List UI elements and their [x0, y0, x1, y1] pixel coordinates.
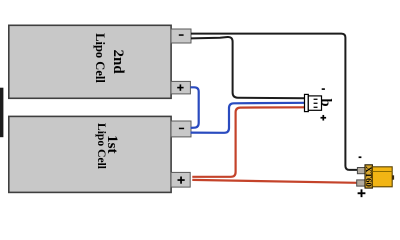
battery B2 (2nd Lipo Cell): [9, 25, 171, 98]
wire cropped at left edge: [0, 88, 3, 138]
XT60 body: [372, 167, 392, 187]
XT60 pos tab: [357, 180, 366, 186]
wire red 1: B1 pos to balance pos pin: [192, 107, 305, 177]
XT60 neg tab: [357, 168, 365, 174]
XT60 connector: [357, 165, 394, 188]
wire red 2: B1 pos to XT60 pos: [192, 180, 356, 183]
balance connector JST-XH: [305, 94, 322, 111]
terminal tab B1 positive: [171, 172, 190, 187]
svg-text:Lipo Cell: Lipo Cell: [93, 33, 107, 83]
XT60 label strip: [365, 165, 372, 188]
terminal tab B1 negative: [171, 121, 191, 137]
svg-text:2nd: 2nd: [110, 50, 126, 75]
battery B1 (1st Lipo Cell): [9, 116, 171, 192]
wire blue 2: B1 neg to balance middle pin: [191, 103, 306, 133]
wire blue 1: B2 pos to B1 neg (series link): [191, 87, 199, 128]
svg-text:b: b: [317, 99, 333, 107]
svg-text:Lipo Cell: Lipo Cell: [95, 123, 108, 170]
terminal tab B2 negative: [171, 29, 191, 43]
wire black A: B2 neg to XT60 neg: [191, 34, 358, 170]
wire black B: B2 neg to balance pin: [191, 37, 305, 98]
terminal tab B2 positive: [171, 81, 190, 94]
svg-text:XT60: XT60: [364, 166, 374, 187]
XT60 notch: [392, 175, 394, 179]
balance connector labels: - b +: [317, 88, 333, 120]
XT60 labels: [358, 156, 366, 197]
